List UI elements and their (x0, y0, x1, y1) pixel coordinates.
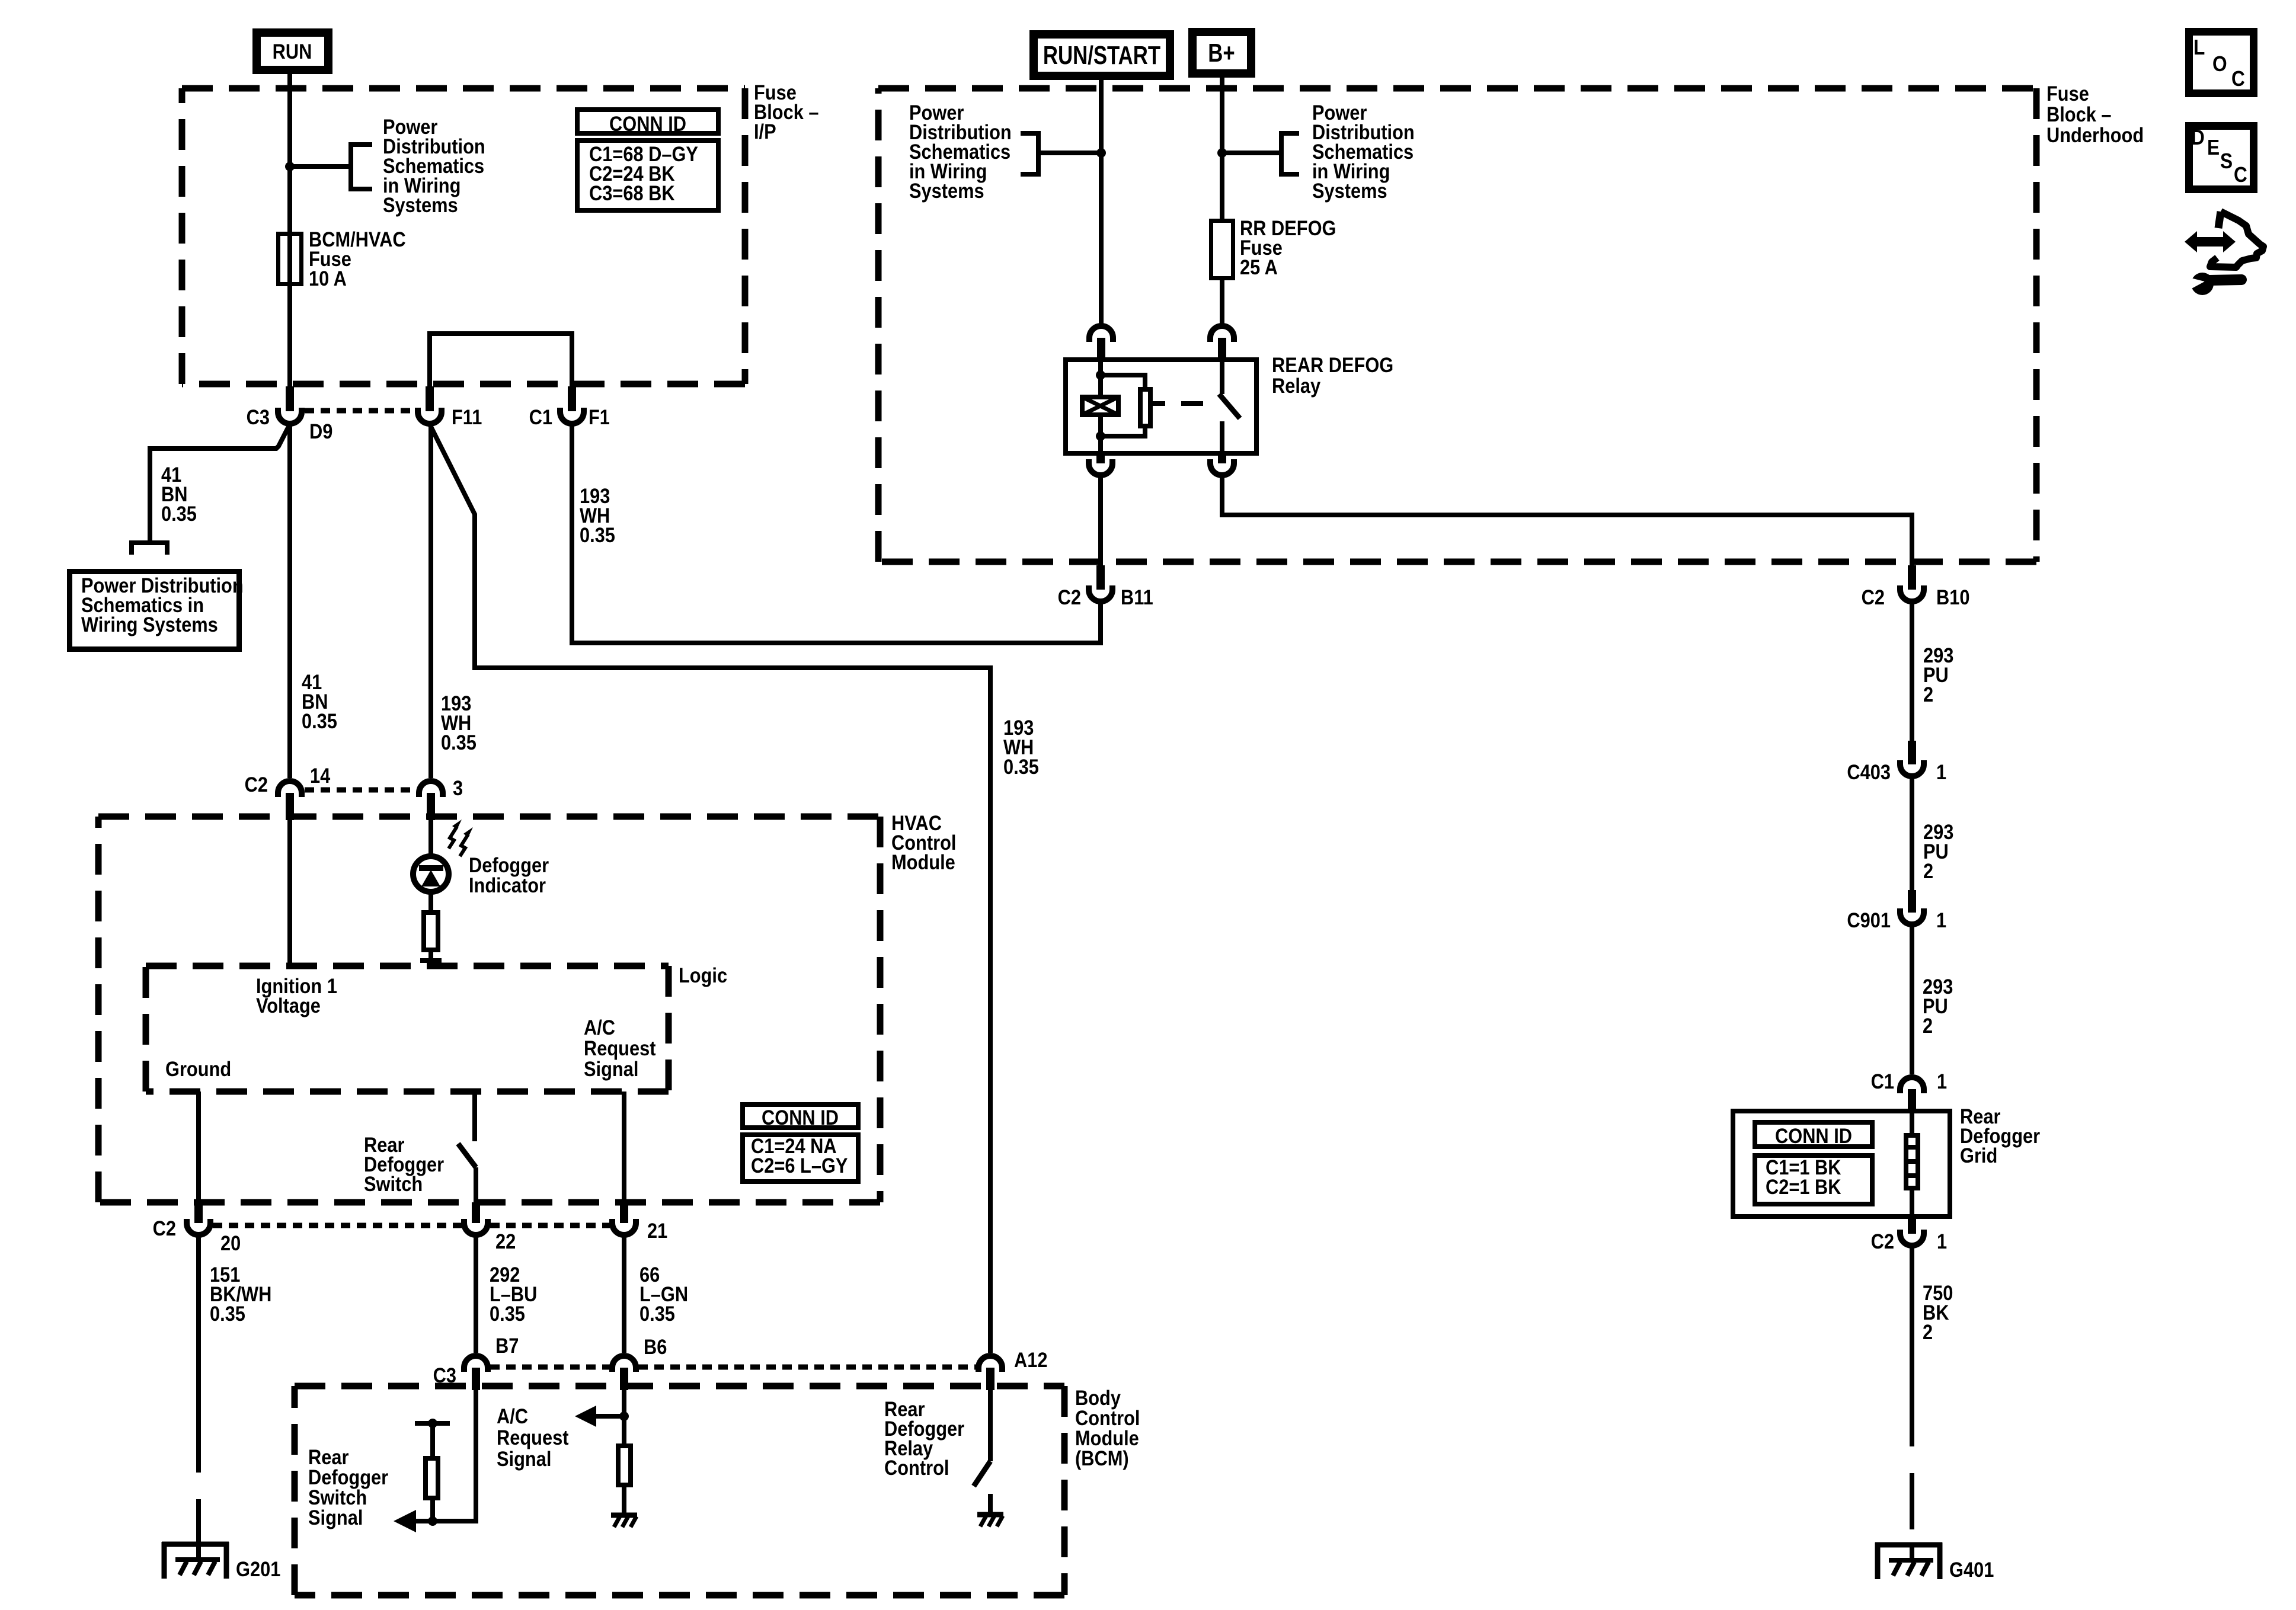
wire fuse to connector D9 (287, 232, 292, 386)
connector F11 (418, 386, 442, 424)
svg-text:C2=6 L–GY: C2=6 L–GY (751, 1154, 848, 1177)
label 21 (647, 1219, 667, 1242)
wire to power distribution bracket (I/P) (290, 164, 351, 169)
wire to power distribution bracket (B+) (1222, 151, 1281, 155)
label Power Distribution Schematics in Wiring Systems (I/P) (383, 115, 485, 216)
label C2 (HVAC pin 14) (245, 773, 268, 796)
tie line B7-B6-A12 (490, 1365, 976, 1370)
label BCM/HVAC Fuse 10 A (309, 228, 406, 290)
label C2 (pin 20) (153, 1217, 176, 1240)
rear defogger grid box (1733, 1111, 1950, 1217)
svg-text:RUN: RUN (273, 40, 312, 63)
indicator series resistor (420, 913, 442, 966)
svg-text:1: 1 (1936, 760, 1946, 783)
svg-text:A/C: A/C (584, 1016, 615, 1039)
svg-text:E: E (2207, 136, 2220, 159)
label Ignition 1 Voltage (256, 974, 337, 1017)
svg-text:20: 20 (220, 1231, 241, 1254)
connector pin 22 (464, 1202, 488, 1235)
label Power Distribution Schematics in Wiring Systems (B+) (1312, 101, 1415, 202)
svg-text:RUN/START: RUN/START (1043, 41, 1160, 70)
dashed wire to G201 (196, 1416, 201, 1542)
label C1 (529, 405, 552, 428)
wire RR DEFOG fuse to relay switch (1220, 280, 1224, 324)
power feed terminal B+ box (1192, 32, 1251, 73)
wire C901 to grid C1 (293 PU) (1910, 924, 1914, 1074)
svg-text:0.35: 0.35 (161, 502, 197, 525)
svg-text:C403: C403 (1847, 760, 1891, 783)
tie line pin14 to pin3 (305, 788, 416, 793)
label 1 (grid C1) (1937, 1070, 1947, 1093)
box Power Distribution Schematics in Wiring Systems (70, 572, 244, 649)
connector pin A12 (978, 1356, 1002, 1390)
fuse block I/P dashed box (182, 88, 745, 384)
svg-text:Relay: Relay (1272, 374, 1321, 397)
power feed terminal RUN box (257, 33, 328, 70)
svg-text:A/C: A/C (497, 1404, 528, 1427)
label C1 (grid) (1871, 1070, 1894, 1093)
label Fuse Block - I/P (754, 81, 819, 143)
wire pin 20 to G201 (151 BK/WH) (196, 1235, 201, 1416)
wire B+ to RR DEFOG fuse (1220, 78, 1224, 219)
svg-text:C2: C2 (1862, 585, 1885, 609)
svg-text:Switch: Switch (364, 1172, 423, 1195)
label 1 (C901) (1936, 908, 1946, 932)
svg-text:2: 2 (1923, 1320, 1933, 1343)
fuse block bus F11 to F1 (430, 334, 572, 386)
connector relay coil terminal (bottom left) (1089, 456, 1112, 475)
wire RUN/START to relay coil (1099, 80, 1104, 324)
svg-text:0.35: 0.35 (302, 709, 337, 732)
connector C403 pin 1 (1900, 741, 1924, 776)
label 293 PU 2 (upper) (1923, 644, 1953, 706)
svg-text:21: 21 (647, 1219, 667, 1242)
svg-text:2: 2 (1923, 1014, 1933, 1037)
label 1 (C403) (1936, 760, 1946, 783)
label 750 BK 2 (1923, 1281, 1953, 1343)
power distribution bracket (B+) (1281, 133, 1299, 174)
svg-text:C2: C2 (1058, 585, 1081, 609)
connector C2 pin B10 (1900, 565, 1924, 601)
svg-text:Signal: Signal (584, 1057, 638, 1080)
label 66 L-GN 0.35 (639, 1263, 688, 1325)
label Rear Defogger Switch (364, 1133, 444, 1195)
svg-text:1: 1 (1937, 1070, 1947, 1093)
label B6 (644, 1335, 667, 1358)
connector C1 pin 1 (grid) (1900, 1077, 1924, 1109)
svg-text:I/P: I/P (754, 120, 776, 143)
power distribution bracket (RUN/START) (1021, 133, 1038, 174)
label REAR DEFOG Relay (1272, 353, 1393, 397)
label 14 (310, 764, 331, 787)
svg-text:CONN ID: CONN ID (609, 112, 686, 135)
relay control switch (BCM) (974, 1390, 990, 1513)
label B11 (1121, 585, 1153, 609)
svg-text:Signal: Signal (497, 1447, 551, 1470)
label Logic (679, 964, 727, 987)
logic dashed box (146, 966, 669, 1092)
svg-text:22: 22 (495, 1230, 516, 1253)
defogger indicator LED (413, 856, 449, 910)
connector C3 pin B7 (464, 1356, 488, 1390)
label 20 (220, 1231, 241, 1254)
rear defogger switch signal arrow (394, 1510, 433, 1532)
svg-text:3: 3 (453, 776, 463, 799)
svg-text:F11: F11 (452, 405, 482, 428)
rear defogger switch (458, 1092, 476, 1202)
svg-text:0.35: 0.35 (441, 731, 477, 754)
svg-text:C901: C901 (1847, 908, 1891, 932)
svg-text:Block –: Block – (2046, 103, 2112, 126)
relay coil wire (1098, 357, 1103, 456)
svg-text:B7: B7 (495, 1334, 519, 1357)
relay switch contact (1219, 357, 1240, 456)
label C2 (B11) (1058, 585, 1081, 609)
power distribution bracket (I/P) (351, 145, 372, 189)
svg-text:0.35: 0.35 (1003, 755, 1039, 778)
connector C901 pin 1 (1900, 890, 1924, 924)
relay coil element (1082, 397, 1118, 415)
svg-text:Indicator: Indicator (469, 873, 546, 897)
svg-text:Logic: Logic (679, 964, 727, 987)
fuse BCM/HVAC 10A (279, 234, 302, 284)
relay actuator dashed link (1153, 401, 1203, 406)
svg-text:B6: B6 (644, 1335, 667, 1358)
svg-text:2: 2 (1923, 683, 1933, 706)
tie line D9 to F11 (305, 408, 415, 414)
label C2 (grid) (1871, 1230, 1894, 1253)
label A12 (1014, 1348, 1047, 1371)
label Ground (165, 1057, 231, 1080)
connector C2 pin 14 (HVAC) (278, 781, 302, 820)
svg-text:C2: C2 (245, 773, 268, 796)
svg-text:0.35: 0.35 (490, 1302, 525, 1325)
svg-text:0.35: 0.35 (210, 1302, 245, 1325)
dashed wire to G401 (1910, 1390, 1914, 1542)
svg-text:Ground: Ground (165, 1057, 231, 1080)
wire pin 22 to B7 (474, 1235, 478, 1353)
label D9 (309, 420, 332, 443)
svg-text:D9: D9 (309, 420, 332, 443)
svg-text:14: 14 (310, 764, 331, 787)
svg-text:1: 1 (1937, 1230, 1947, 1253)
label 1 (grid C2) (1937, 1230, 1947, 1253)
connector C2 pin 20 (187, 1202, 210, 1235)
svg-text:CONN ID: CONN ID (762, 1106, 839, 1129)
svg-text:Request: Request (497, 1426, 568, 1449)
svg-text:Wiring Systems: Wiring Systems (81, 613, 218, 636)
svg-text:0.35: 0.35 (580, 523, 615, 546)
label C2 (B10) (1862, 585, 1885, 609)
label C3 (247, 405, 270, 428)
label 3 (453, 776, 463, 799)
label 193 WH 0.35 (A12 wire) (1003, 716, 1039, 778)
svg-text:(BCM): (BCM) (1075, 1446, 1129, 1470)
fuse block underhood dashed box (878, 88, 2036, 562)
svg-text:Signal: Signal (308, 1506, 363, 1529)
label 292 L-BU 0.35 (490, 1263, 537, 1325)
label HVAC Control Module (891, 811, 956, 873)
svg-text:Voltage: Voltage (256, 994, 321, 1017)
wire F11 to BCM A12 (193 WH) (430, 424, 990, 1353)
double arrow icon (2185, 231, 2236, 252)
svg-text:C2: C2 (153, 1217, 176, 1240)
svg-text:C3=68 BK: C3=68 BK (589, 181, 675, 204)
LED emission arrows (449, 820, 473, 856)
svg-text:Fuse: Fuse (2046, 82, 2089, 105)
wire to power distribution bracket (RUN/START) (1038, 151, 1101, 155)
label 193 WH 0.35 (pin 3 wire) (441, 692, 477, 754)
svg-text:B10: B10 (1936, 585, 1969, 609)
label 293 PU 2 (lower) (1923, 975, 1953, 1037)
svg-text:C3: C3 (247, 405, 270, 428)
svg-text:REAR DEFOG: REAR DEFOG (1272, 353, 1393, 376)
wire pin 21 to B6 (622, 1235, 626, 1353)
wire ground to pin 20 (196, 1092, 201, 1202)
A/C request signal arrow (575, 1406, 624, 1427)
svg-text:2: 2 (1923, 859, 1933, 882)
svg-text:C2: C2 (1871, 1230, 1894, 1253)
svg-text:CONN ID: CONN ID (1775, 1124, 1852, 1147)
wire B6 to A/C request node (622, 1390, 626, 1443)
label F1 (589, 405, 610, 428)
vehicle panel icon (2210, 212, 2263, 267)
label Rear Defogger Relay Control (884, 1397, 964, 1479)
wire relay coil to B11 (1098, 474, 1103, 565)
label B7 (495, 1334, 519, 1357)
relay suppression resistor branch (1101, 375, 1150, 436)
wire D9 to HVAC pin 14 (287, 423, 292, 778)
label Rear Defogger Grid (1960, 1105, 2040, 1167)
connector relay switch terminal (top right) (1210, 326, 1234, 357)
connector relay switch terminal (bottom right) (1210, 456, 1234, 475)
svg-text:G201: G201 (236, 1557, 280, 1580)
body control module dashed box (295, 1386, 1064, 1595)
chassis ground (relay control) (977, 1515, 1003, 1526)
svg-text:25 A: 25 A (1240, 255, 1278, 279)
svg-text:B+: B+ (1208, 39, 1235, 68)
chassis ground (A/C) (611, 1515, 637, 1527)
connector pin 21 (612, 1202, 636, 1235)
junction dot B+ branch (1217, 148, 1227, 158)
HVAC control module dashed box (98, 817, 880, 1202)
label 41 BN 0.35 (lower) (302, 670, 337, 732)
power feed terminal RUN/START box (1034, 34, 1170, 76)
wire pin 14 to logic (287, 820, 292, 966)
CONN ID table (fuse block I/P) (577, 110, 718, 210)
svg-text:C1: C1 (1871, 1070, 1894, 1093)
svg-text:0.35: 0.35 (639, 1302, 675, 1325)
wire relay switch to B10 (1222, 474, 1912, 565)
wire F1 to relay B11 (193 WH) (572, 424, 1101, 643)
junction dot relay coil top (1096, 370, 1105, 380)
label Defogger Indicator (469, 853, 549, 897)
grid element wire (1910, 1109, 1914, 1215)
wire pin 3 to defogger indicator (428, 820, 433, 856)
label 22 (495, 1230, 516, 1253)
connector pin B6 (612, 1356, 636, 1390)
svg-text:Control: Control (884, 1456, 949, 1479)
connector C1 pin F1 (560, 386, 584, 424)
wire D9 to power distribution branch (150, 424, 290, 540)
LOC icon box (2189, 32, 2254, 94)
label C3 (B7) (433, 1363, 456, 1387)
junction dot switch signal (428, 1516, 437, 1526)
svg-text:Grid: Grid (1960, 1144, 1997, 1167)
CONN ID table (HVAC) (743, 1105, 858, 1182)
svg-text:Systems: Systems (383, 193, 458, 216)
label B10 (1936, 585, 1969, 609)
wrench icon (2188, 273, 2241, 295)
svg-text:C: C (2234, 163, 2247, 187)
svg-text:D: D (2191, 126, 2205, 149)
svg-text:B11: B11 (1121, 585, 1153, 609)
connector C2 pin B11 (1089, 565, 1112, 601)
svg-text:10 A: 10 A (309, 267, 347, 290)
switch signal pull-up resistor (426, 1423, 438, 1521)
label 151 BK/WH 0.35 (210, 1263, 271, 1325)
ground G201 (162, 1542, 280, 1580)
grid heater element (1904, 1135, 1920, 1188)
fork to power distribution box (132, 543, 167, 555)
label A/C Request Signal (logic) (584, 1016, 655, 1080)
label 41 BN 0.35 (upper) (161, 463, 197, 525)
junction dot RUN/START branch (1096, 148, 1106, 158)
junction dot RUN branch (285, 162, 295, 171)
wire RUN to BCM/HVAC fuse (287, 74, 292, 232)
svg-text:O: O (2212, 52, 2227, 76)
svg-text:Systems: Systems (909, 179, 984, 202)
connector C3 pin D9 (278, 386, 302, 424)
wire B10 to C403 (293 PU) (1910, 601, 1914, 741)
svg-text:C: C (2231, 67, 2245, 91)
svg-text:L: L (2193, 36, 2205, 59)
label 193 WH 0.35 (F1 wire) (580, 484, 615, 546)
CONN ID table (grid) (1755, 1122, 1872, 1204)
label F11 (452, 405, 482, 428)
pull-up rail tick (415, 1419, 450, 1428)
label C403 (1847, 760, 1891, 783)
connector C2 pin 1 (grid) (1900, 1215, 1924, 1246)
label Body Control Module (BCM) (1075, 1386, 1140, 1470)
svg-text:G401: G401 (1949, 1558, 1994, 1581)
junction dot A/C request (619, 1411, 629, 1421)
label A/C Request Signal (BCM) (497, 1404, 568, 1470)
label Fuse Block - Underhood (2046, 82, 2144, 146)
svg-text:Module: Module (891, 850, 955, 873)
svg-text:Systems: Systems (1312, 179, 1387, 202)
tie line pins 20-22-21 (213, 1223, 610, 1228)
svg-text:A12: A12 (1014, 1348, 1047, 1371)
ground G401 (1875, 1542, 1994, 1581)
svg-text:C1: C1 (529, 405, 552, 428)
DESC icon box (2189, 126, 2254, 189)
fuse RR DEFOG 25A (1211, 221, 1233, 279)
A/C pull-down resistor (618, 1446, 631, 1515)
svg-text:Request: Request (584, 1036, 655, 1060)
connector relay coil terminal (top left) (1089, 326, 1113, 357)
wire F11 to HVAC pin 3 (428, 423, 433, 778)
relay REAR DEFOG box (1066, 360, 1256, 453)
wire A/C request to pin 21 (622, 1092, 626, 1202)
wire C403 to C901 (293 PU) (1910, 776, 1914, 890)
wire B7 to switch signal node (433, 1390, 476, 1521)
svg-text:C2=1 BK: C2=1 BK (1766, 1175, 1841, 1198)
svg-text:F1: F1 (589, 405, 610, 428)
wire grid to ground (750 BK) (1910, 1246, 1914, 1390)
label RR DEFOG Fuse 25 A (1240, 216, 1336, 279)
svg-text:Underhood: Underhood (2046, 123, 2144, 146)
label Rear Defogger Switch Signal (308, 1445, 388, 1529)
junction dot relay coil bottom (1096, 431, 1105, 441)
label Power Distribution Schematics in Wiring Systems (RUN/START) (909, 101, 1012, 202)
label C901 (1847, 908, 1891, 932)
svg-text:1: 1 (1936, 908, 1946, 932)
connector pin 3 (HVAC) (419, 781, 443, 820)
svg-text:S: S (2220, 149, 2233, 173)
label 293 PU 2 (middle) (1923, 820, 1953, 882)
